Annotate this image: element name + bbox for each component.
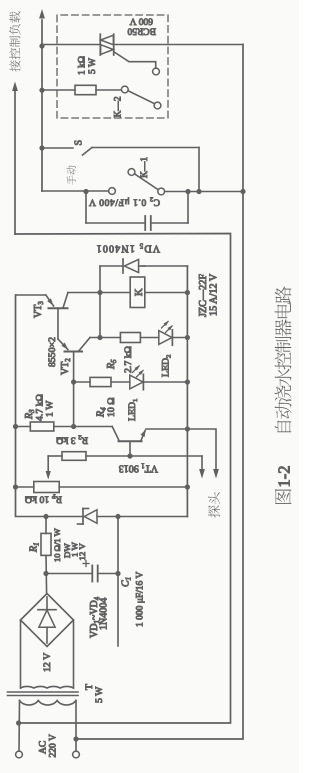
wire: DC +12V rail <box>15 295 17 516</box>
zener diode DW branch <box>16 516 84 518</box>
resistor R3 branch <box>16 426 31 428</box>
wire: triac branch upper <box>42 44 100 46</box>
bridge rectifier VD1-VD4 <box>21 594 74 647</box>
wire: output rail B (to load return) <box>14 92 16 235</box>
junction: RP at +12V rail <box>13 484 18 489</box>
junction: relay coil top node <box>97 290 102 295</box>
wire: R2 to probe <box>201 456 203 474</box>
svg-text:10 Ω/1 W: 10 Ω/1 W <box>52 528 62 562</box>
label: 接控制负载 (connect controlled load) <box>9 60 20 71</box>
resistor R4 branch <box>74 381 90 383</box>
label: 探头 (probe) <box>208 505 220 517</box>
dashed enclosure (relay contact unit) <box>57 15 168 118</box>
svg-text:LED1: LED1 <box>127 399 139 421</box>
wiper arrow of RP <box>47 456 49 475</box>
transistor VT2 (8550) <box>58 339 68 350</box>
junction: relay coil at negative bus <box>185 290 190 295</box>
svg-text:1-2: 1-2 <box>275 466 294 488</box>
LED2 <box>159 331 172 345</box>
junction: VT1 base at R2 branch <box>127 453 132 458</box>
junction: switch S at rail A <box>39 145 44 150</box>
wire: rail B drop and bottom return rail <box>15 234 231 724</box>
potentiometer RP <box>16 486 34 488</box>
wire: triac gate <box>115 52 156 68</box>
transformer core <box>8 695 79 697</box>
resistor 1 kOhm 5 W <box>42 89 75 91</box>
junction: zener anode node <box>115 514 120 519</box>
junction: triac at rail A <box>39 43 44 48</box>
junction: C2 bottom at K-1 branch <box>185 189 190 194</box>
AC terminal 1 <box>16 751 23 758</box>
transformer primary winding <box>20 701 76 706</box>
svg-text:AC: AC <box>39 741 49 754</box>
junction: C1 at negative link <box>115 571 120 576</box>
junction: C2 top at K-1 branch <box>83 189 88 194</box>
wire: output rail A (top, to load) <box>41 20 43 191</box>
svg-text:1N4004: 1N4004 <box>99 598 110 630</box>
svg-text:LED2: LED2 <box>161 355 173 377</box>
plus sign of C1 <box>85 561 87 567</box>
svg-text:VD5 1N4001: VD5 1N4001 <box>95 241 160 253</box>
wire: AC2 to primary <box>75 701 77 752</box>
svg-text:R2 3 kΩ: R2 3 kΩ <box>56 433 88 445</box>
wire: VT1 emitter to probe <box>146 429 216 474</box>
wire: negative link <box>117 517 119 647</box>
junction: K-1 branch at bottom rail <box>240 189 245 194</box>
wire: coil top node <box>99 266 101 338</box>
bridge inner diode <box>46 597 48 610</box>
LED1 <box>130 375 143 389</box>
switch K-1 (relay contact) <box>42 190 109 192</box>
svg-text:5 W: 5 W <box>88 58 98 74</box>
triac BCR50 <box>99 34 101 55</box>
junction: RP at negative bus <box>185 484 190 489</box>
junction: bottom rail riser at AC2 wire <box>73 736 78 741</box>
wire: negative bus <box>118 516 187 518</box>
svg-text:8550×2: 8550×2 <box>47 337 58 367</box>
transistor VT1 (9013) <box>112 427 119 442</box>
svg-text:1 kΩ: 1 kΩ <box>78 56 88 75</box>
wire: bottom AC rail (triac side) <box>76 45 243 740</box>
junction: LED1 at negative bus <box>185 379 190 384</box>
svg-text:600 V: 600 V <box>130 16 153 26</box>
diode VD5 <box>122 259 124 273</box>
junction: 1k resistor at rail A <box>39 88 44 93</box>
junction: R3 at +12V rail <box>13 424 18 429</box>
svg-text:BCR50: BCR50 <box>127 26 156 36</box>
wire: S branch to K-1 branch <box>198 148 200 192</box>
junction: VT2 collector node <box>97 335 102 340</box>
relay coil K branch <box>68 292 130 294</box>
wire: AC1 to primary <box>18 701 21 752</box>
svg-text:12 V: 12 V <box>42 653 53 672</box>
diode VD5 branch <box>100 265 123 267</box>
resistor R1 <box>45 517 47 534</box>
svg-text:220 V: 220 V <box>49 734 59 757</box>
junction: return riser at AC1 wire <box>16 720 21 725</box>
junction: R3 at VT2 base line <box>71 424 76 429</box>
caption: figure title <box>275 489 291 504</box>
svg-text:C2 0.1 μF/400 V: C2 0.1 μF/400 V <box>88 195 160 206</box>
svg-text:15 A/12 V: 15 A/12 V <box>209 273 220 316</box>
junction: VT1 emitter at negative bus <box>185 426 190 431</box>
svg-text:1 000 μF/16 V: 1 000 μF/16 V <box>136 572 146 627</box>
svg-text:S: S <box>74 140 85 146</box>
svg-text:K—2: K—2 <box>114 96 124 117</box>
svg-text:RP 10 kΩ: RP 10 kΩ <box>25 492 62 504</box>
AC terminal 2 <box>73 751 80 758</box>
node: gate contact circle <box>153 68 160 75</box>
resistor R5 branch <box>90 337 120 339</box>
svg-text:K: K <box>134 288 145 296</box>
transformer secondary winding <box>21 686 74 688</box>
transistor VT3 (8550) <box>16 294 46 296</box>
junction: S branch at K-1 branch <box>196 189 201 194</box>
junction: R4 branch at VT2 base line <box>71 379 76 384</box>
junction: R1 at zener branch <box>43 514 48 519</box>
svg-text:JZC—22F: JZC—22F <box>198 274 209 317</box>
svg-text:10 Ω: 10 Ω <box>106 397 117 417</box>
capacitor C2 branch <box>85 192 87 224</box>
svg-text:K—1: K—1 <box>140 157 150 178</box>
svg-text:2.7 kΩ: 2.7 kΩ <box>123 346 134 373</box>
svg-text:12 V: 12 V <box>77 543 87 561</box>
wire: triac branch lower <box>114 44 243 46</box>
wire: bridge AC bottom to secondary <box>73 620 75 688</box>
label: 手动 (manual) <box>67 175 76 184</box>
switch K-2 (relay contact) <box>121 86 128 93</box>
svg-text:5 W: 5 W <box>94 686 105 703</box>
relay coil K box <box>130 277 145 308</box>
wire: bridge AC top to secondary <box>20 620 22 688</box>
svg-text:1 W: 1 W <box>45 400 56 417</box>
resistor R2 branch <box>48 455 62 457</box>
junction: LED2 at negative bus <box>185 335 190 340</box>
junction: R1 at C1 branch <box>43 571 48 576</box>
switch S manual <box>42 147 73 149</box>
svg-text:VT1 9013: VT1 9013 <box>119 461 158 473</box>
capacitor C1 branch <box>46 573 92 575</box>
